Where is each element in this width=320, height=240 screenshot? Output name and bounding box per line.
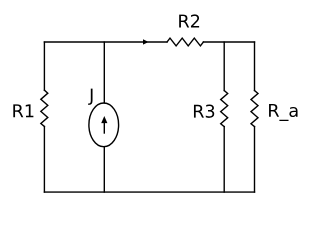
resistor R_a: [251, 91, 258, 127]
label R_a: [269, 104, 297, 121]
wire R3 branch bottom stub: [223, 127, 225, 193]
current source J arrow shaft: [103, 123, 105, 134]
wire bottom rail: [44, 191, 254, 193]
label J: [88, 89, 92, 105]
resistor R2: [167, 38, 203, 46]
wire right vertical bottom stub: [254, 127, 256, 193]
current direction arrow on top wire: [143, 39, 149, 44]
label R3: [194, 105, 214, 118]
wire J branch bottom stub: [103, 147, 105, 192]
resistor R3: [221, 91, 228, 127]
current source J ellipse: [89, 103, 119, 147]
wire right vertical top stub: [254, 42, 256, 91]
current source J arrowhead: [101, 116, 107, 123]
wire left vertical bottom stub: [43, 127, 45, 193]
wire top rail right segment: [203, 41, 254, 43]
wire R3 branch top stub: [223, 42, 225, 91]
wire top rail left segment: [44, 41, 167, 43]
wire left vertical top stub: [43, 42, 45, 90]
label R1: [13, 104, 33, 117]
resistor R1: [41, 90, 48, 126]
wire J branch top stub: [103, 42, 105, 103]
label R2: [179, 14, 199, 27]
